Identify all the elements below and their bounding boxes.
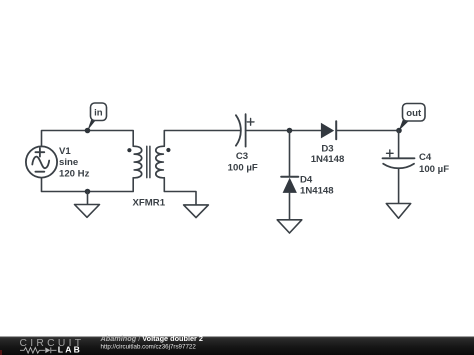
svg-text:sine: sine [59, 157, 78, 168]
svg-text:D4: D4 [300, 175, 313, 186]
wire: V1 bottom lead to XFMR1 primary bottom [42, 178, 134, 192]
net flag "in" [87, 103, 106, 131]
polarity dot secondary [166, 148, 170, 152]
label V1 value [59, 146, 90, 180]
wire: ground stem below V1 [87, 192, 89, 205]
wire: out node down to C4 [398, 131, 400, 159]
svg-text:LAB: LAB [58, 345, 82, 355]
footer bar [0, 337, 474, 355]
wire: C4 to ground [398, 168, 400, 203]
transformer XFMR1 [127, 146, 170, 178]
svg-text:C4: C4 [419, 152, 432, 163]
ground symbol (V1) [75, 205, 100, 218]
svg-text:D3: D3 [321, 143, 333, 154]
label C3 value [228, 151, 258, 173]
wire: D3 cathode to out node [336, 130, 399, 132]
polarity dot primary [127, 148, 131, 152]
footer red corner mark [0, 350, 2, 355]
ground symbol (XFMR1) [184, 205, 209, 218]
wire: D4 branch from junction [289, 131, 291, 177]
wire: V1 top lead to XFMR1 primary top [42, 131, 134, 147]
node in-junction [85, 128, 91, 134]
wire: XFMR1 secondary bottom to ground [164, 178, 196, 205]
label C4 value [419, 152, 449, 175]
wire: D4 anode to ground [289, 193, 291, 220]
capacitor C3 [236, 114, 254, 146]
node D4 junction [287, 128, 293, 134]
voltage source V1 [26, 146, 57, 177]
svg-text:1N4148: 1N4148 [311, 154, 345, 165]
label D3 value [311, 143, 345, 165]
node out junction [396, 128, 402, 134]
label D4 value [300, 175, 334, 197]
secondary winding [156, 146, 164, 178]
CircuitLab logo resistor-diode squiggle [20, 347, 57, 353]
svg-text:XFMR1: XFMR1 [133, 198, 166, 209]
svg-text:C3: C3 [236, 151, 248, 162]
diode D3 [321, 121, 336, 139]
svg-text:V1: V1 [59, 146, 71, 157]
diode D4 [281, 177, 298, 193]
svg-text:in: in [94, 108, 103, 119]
svg-text:1N4148: 1N4148 [300, 186, 334, 197]
svg-text:100 µF: 100 µF [228, 162, 258, 173]
svg-text:out: out [406, 108, 422, 119]
wire: XFMR1 secondary top to C3 [164, 131, 240, 147]
svg-text:120 Hz: 120 Hz [59, 169, 90, 180]
net flag "out" [399, 104, 425, 131]
svg-text:Abaminog / Voltage doubler 2: Abaminog / Voltage doubler 2 [100, 334, 203, 343]
primary winding [134, 146, 142, 178]
ground symbol (C4) [386, 204, 410, 219]
svg-text:http://circuitlab.com/cz36j7rs: http://circuitlab.com/cz36j7rs97722 [101, 343, 197, 350]
node ground junction at V1 [85, 189, 91, 195]
ground symbol (D4) [277, 220, 302, 233]
core [147, 146, 150, 177]
capacitor C4 [383, 150, 415, 168]
wire: C3 to D3 anode [246, 130, 321, 132]
svg-text:100 µF: 100 µF [419, 164, 449, 175]
